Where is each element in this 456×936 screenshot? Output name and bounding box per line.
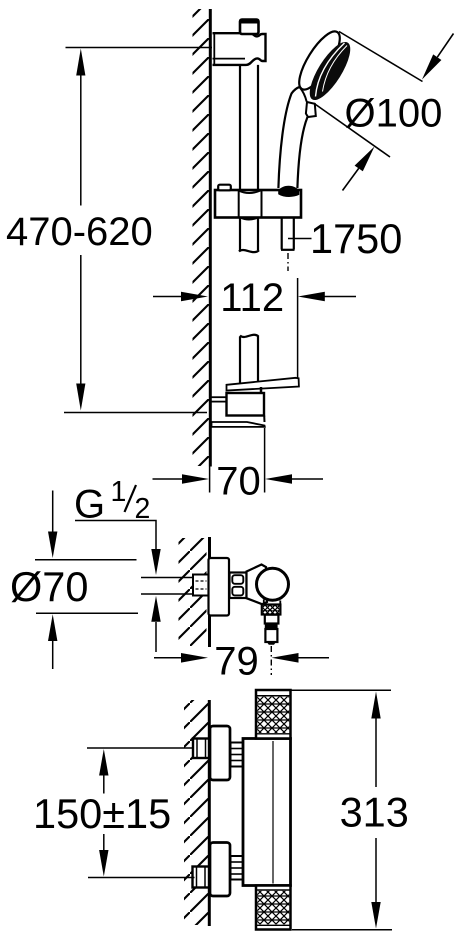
rail mid segment (below holder, with break) [239, 218, 259, 253]
wall hatching bottom [184, 700, 208, 925]
dark cone re-draw over holder top right [278, 187, 299, 197]
svg-text:Ø100: Ø100 [345, 92, 443, 136]
knob on top bracket [239, 19, 260, 35]
bottom handle knurled [256, 886, 291, 930]
shelf support notch [260, 387, 263, 396]
hand shower face rim [292, 26, 347, 95]
rail upper segment [240, 65, 258, 190]
Ø100 arrow upper [422, 34, 454, 80]
top rail bracket [213, 33, 266, 65]
arrow down 470-620 [76, 384, 85, 411]
wall line bottom [208, 700, 211, 926]
hose cone at holder (dark) [277, 186, 300, 197]
dimension 112 [297, 278, 299, 378]
valve body [247, 565, 268, 605]
nipple lower arrow [155, 622, 157, 652]
svg-text:70: 70 [216, 460, 261, 504]
dimension 150±15 [87, 747, 193, 749]
svg-text:1: 1 [111, 476, 127, 508]
svg-text:Ø70: Ø70 [10, 563, 88, 610]
outlet piece [265, 615, 279, 624]
dimension 470-620 extension line bottom [64, 412, 207, 414]
hose nipple [265, 629, 277, 642]
outlet center dash-dot [270, 646, 272, 675]
nipple tip [267, 642, 276, 645]
second white streak in band [323, 46, 348, 92]
top hex nut [193, 739, 209, 759]
outlet knurled nut [262, 605, 281, 615]
svg-text:313: 313 [340, 789, 409, 836]
top connector nut [231, 743, 244, 767]
body slab [243, 739, 291, 886]
dimension line 470-620 [80, 74, 82, 385]
bottom hex nut [193, 867, 210, 888]
nipple pipe edge extension lines [141, 577, 193, 579]
dimension Ø100: extension line lower [314, 103, 391, 157]
dimension 70 [209, 467, 211, 493]
dimension 470-620 extension line top [66, 47, 213, 49]
G1/2 nipple behind wall [193, 575, 209, 596]
leader 1750 [288, 238, 312, 240]
holder knob [218, 185, 231, 191]
bracket right edge to foot [263, 416, 265, 423]
svg-text:112: 112 [220, 276, 284, 320]
dimension 79 [154, 657, 182, 659]
svg-text:1750: 1750 [310, 215, 402, 262]
Ø100 arrow lower [343, 147, 375, 191]
arrow up 470-620 [76, 49, 85, 76]
bottom bracket wall link [211, 397, 227, 401]
hose center dash-dot [287, 253, 289, 271]
hand shower handle [278, 87, 307, 188]
bottom connector nut [231, 856, 244, 880]
escutcheon flange [209, 558, 230, 616]
wall hatching middle [179, 538, 207, 646]
svg-text:150±15: 150±15 [33, 790, 171, 837]
wall line middle [208, 537, 211, 647]
outlet dark ring [265, 624, 278, 630]
wall line top [209, 9, 212, 467]
dimension Ø100: extension line upper [339, 32, 423, 82]
union nut [230, 573, 247, 599]
outlet neck [264, 600, 281, 605]
dimension Ø70 [35, 559, 137, 561]
hose below holder [281, 218, 295, 250]
svg-text:470-620: 470-620 [6, 210, 153, 254]
lever knob circle [257, 568, 289, 600]
white streak in band [316, 43, 345, 97]
bottom rail bracket: soap shelf [227, 378, 299, 391]
rail lower segment (above bottom bracket, with break) [240, 335, 259, 383]
dimension 313 [291, 689, 392, 691]
svg-text:79: 79 [214, 640, 259, 684]
top handle knurled [256, 690, 291, 739]
bottom union block [210, 843, 230, 897]
top union block [210, 726, 230, 780]
bottom bracket block [227, 393, 265, 416]
bottom bracket foot [212, 422, 265, 427]
wall hatching top [193, 9, 210, 466]
G1/2 leader [75, 521, 156, 550]
holder (slider) on rail [215, 190, 301, 220]
hand shower pivot tab [306, 102, 316, 117]
spray plate disc (dark band) [302, 36, 357, 105]
